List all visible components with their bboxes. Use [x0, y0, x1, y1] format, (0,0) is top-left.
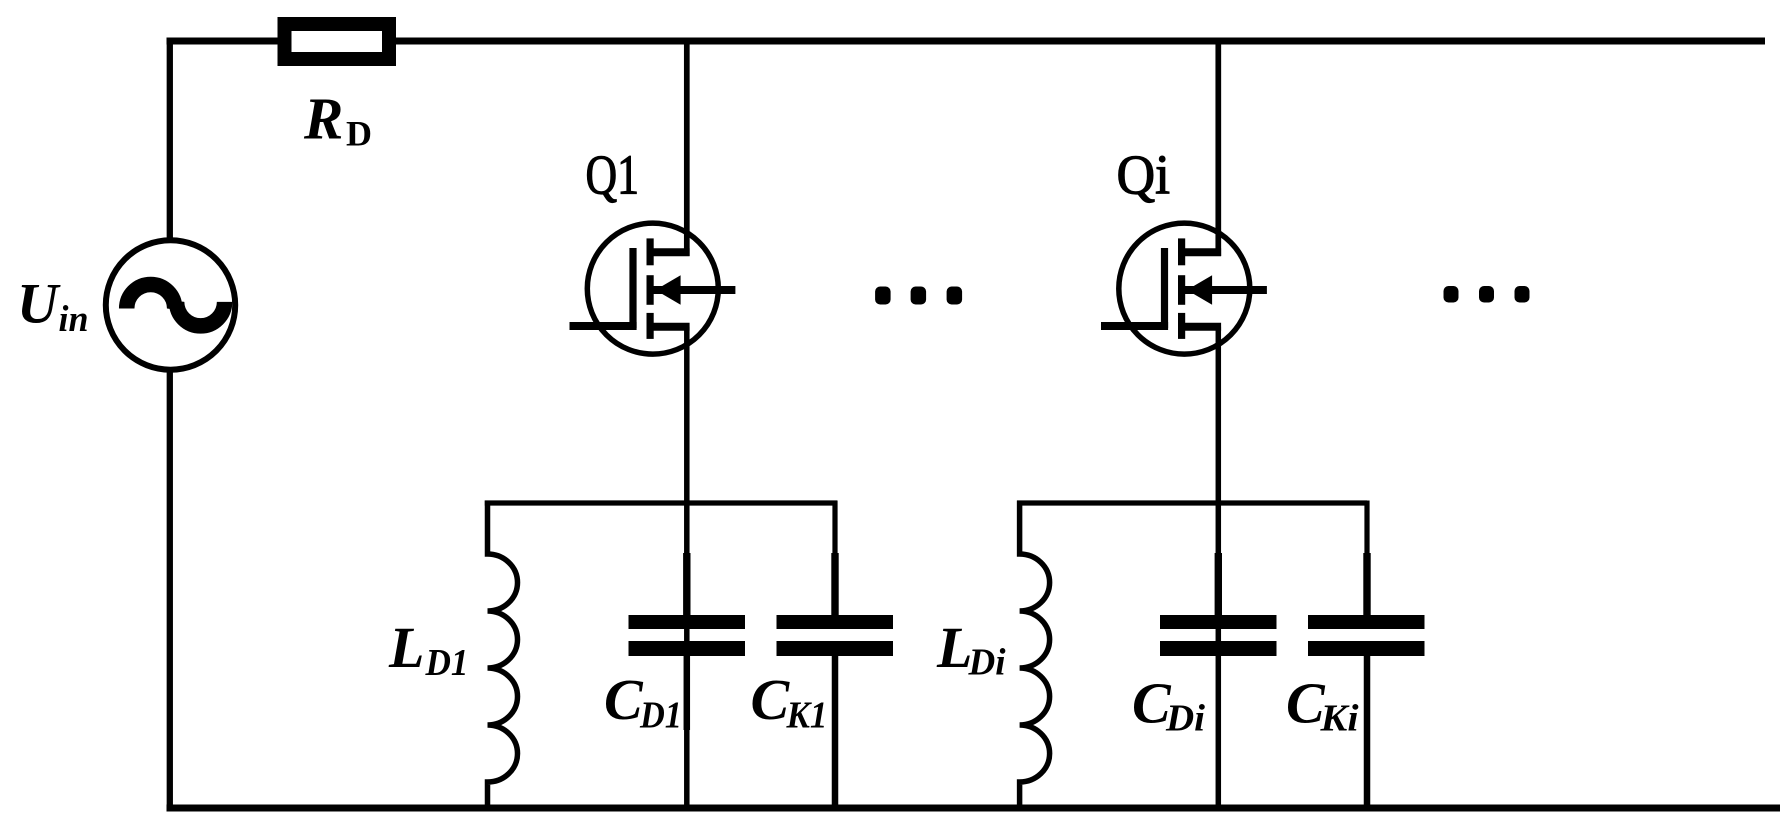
transistor Q1 body lead [652, 286, 735, 294]
svg-text:U: U [17, 273, 61, 336]
svg-text:Di: Di [968, 642, 1006, 684]
transistor Qi body arrow [1187, 275, 1212, 305]
svg-text:C: C [604, 667, 644, 732]
wire Qi source to bottom rail [1216, 327, 1222, 811]
inductor L_D1 [488, 501, 518, 812]
wire Q1 drain (from top rail) [684, 38, 690, 256]
transistor Q1 gate lead [570, 322, 637, 330]
wire tank2 right vertical [1364, 501, 1369, 617]
label C_K1 [751, 667, 828, 737]
transistor Q1 [570, 38, 736, 354]
wire tank1 right vertical [832, 501, 837, 617]
label Qi [1117, 145, 1171, 207]
wire bottom rail [167, 805, 1781, 812]
svg-text:in: in [59, 299, 89, 340]
svg-text:Ki: Ki [1319, 698, 1359, 740]
svg-text:D1: D1 [639, 695, 682, 737]
transistor Q1 channel dashes [646, 238, 653, 339]
capacitor C_D1 [629, 553, 746, 730]
svg-text:Di: Di [1165, 698, 1205, 740]
svg-text:D: D [346, 114, 372, 154]
capacitor C_Ki [1308, 553, 1425, 811]
node dots ellipsis 2 [1444, 286, 1530, 303]
node dots ellipsis 1 [875, 287, 962, 305]
label C_Di [1132, 671, 1205, 740]
ac source U_in [106, 240, 235, 369]
label L_Di [936, 615, 1006, 684]
transistor Q1 source lead [648, 323, 690, 331]
wire left vertical (Uin to top rail) [167, 38, 173, 243]
svg-text:Q1: Q1 [586, 145, 640, 207]
transistor Q1 gate bar [629, 248, 636, 328]
transistor Qi body circle [1119, 223, 1250, 354]
transistor Qi gate bar [1161, 248, 1168, 328]
wire Q1 source to bottom rail [684, 327, 690, 811]
transistor Qi channel dashes [1178, 238, 1185, 339]
svg-text:R: R [303, 86, 343, 152]
transistor Qi body lead [1184, 286, 1267, 294]
wire tank2 top bar [1017, 500, 1367, 505]
svg-text:L: L [936, 615, 972, 680]
svg-text:D1: D1 [425, 642, 469, 684]
svg-text:C: C [751, 667, 791, 732]
transistor Qi source lead [1180, 323, 1222, 331]
inductor L_Di [1020, 501, 1050, 812]
transistor Q1 body circle [587, 223, 718, 354]
capacitor C_K1 [777, 553, 894, 811]
label C_Ki [1286, 671, 1359, 740]
label R_D [303, 86, 372, 154]
label L_D1 [388, 615, 469, 684]
transistor Qi drain lead [1180, 248, 1222, 256]
label U_in [17, 273, 89, 341]
transistor Q1 drain lead [648, 248, 690, 256]
capacitor C_Di [1160, 553, 1277, 649]
label C_D1 [604, 667, 682, 737]
svg-text:K1: K1 [786, 695, 828, 737]
wire Qi drain (from top rail) [1215, 38, 1221, 256]
wire left vertical (Uin to bottom rail) [167, 368, 173, 811]
svg-text:L: L [388, 615, 424, 680]
transistor Q1 body arrow [655, 275, 680, 305]
transistor Qi [1101, 38, 1267, 354]
resistor RD [285, 24, 390, 59]
transistor Qi gate lead [1101, 322, 1168, 330]
svg-text:Qi: Qi [1117, 145, 1171, 207]
label Q1 [586, 145, 640, 207]
wire tank1 top bar [485, 500, 837, 505]
wire top rail [167, 38, 1766, 45]
